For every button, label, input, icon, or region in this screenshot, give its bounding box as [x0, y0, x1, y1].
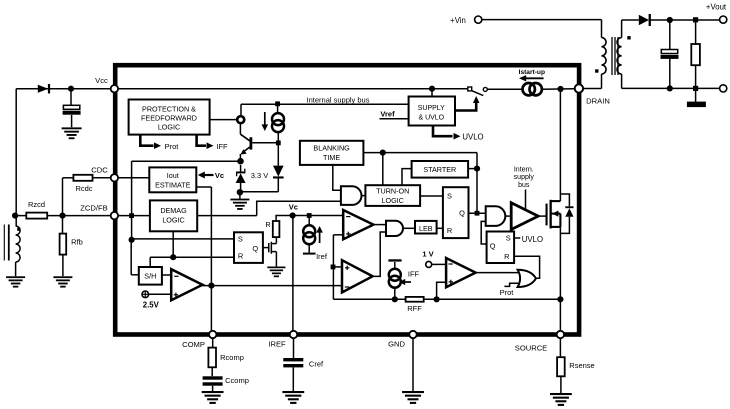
svg-text:Vc: Vc: [289, 203, 298, 212]
power MOSFET drain stub: [551, 200, 560, 202]
wire TURN-ON output to latch1 S: [420, 195, 443, 197]
wire Iout ESTIMATE output to COMP vertical: [196, 186, 211, 188]
svg-text:R: R: [265, 220, 270, 229]
svg-text:Q: Q: [459, 208, 465, 217]
switch contact square: [468, 87, 472, 91]
svg-text:Vc: Vc: [215, 171, 224, 180]
transformer core lines: [611, 37, 613, 75]
ground Rfb: [53, 276, 72, 278]
svg-text:Istart-up: Istart-up: [519, 69, 545, 76]
arrow down current direction: [264, 112, 266, 126]
junction S-row dot: [129, 237, 135, 243]
wire clamp diode bottom link: [240, 191, 278, 193]
wire ilim output bend up to AND gate: [373, 232, 386, 276]
power MOSFET gate bar: [546, 204, 548, 226]
wire ZCD vertical upper segment: [131, 161, 133, 240]
wire Rcdc left bend down to junction: [63, 177, 74, 179]
wire supply tap down to SUPPLY block: [431, 89, 433, 97]
wire error amp output row to current comparator minus: [203, 285, 343, 287]
wire left vertical from diode anode down to aux winding: [15, 89, 17, 226]
aux winding phase dot: [17, 228, 20, 231]
wire intern bus to driver top: [525, 190, 527, 210]
ground aux winding: [6, 276, 25, 278]
transformer secondary coil: [617, 38, 622, 74]
wire driver to MOSFET gate: [538, 215, 546, 217]
wire Iref source top stub: [308, 216, 310, 226]
wire Cref to ground: [292, 367, 294, 391]
svg-text:Internal supply bus: Internal supply bus: [307, 95, 370, 104]
wire COMP to Rcomp: [212, 339, 214, 348]
svg-text:Vcc: Vcc: [95, 76, 108, 85]
ground Rsense: [550, 393, 572, 395]
wire Q1 drain up to resistor R: [275, 237, 277, 244]
wire latch1 Q output row: [469, 212, 486, 214]
junction Q row square: [475, 211, 480, 216]
and gate turn-on: [341, 186, 362, 205]
svg-text:LOGIC: LOGIC: [158, 122, 180, 131]
svg-text:LOGIC: LOGIC: [382, 196, 404, 205]
svg-text:Rfb: Rfb: [71, 238, 83, 247]
svg-text:FEEDFORWARD: FEEDFORWARD: [141, 113, 197, 122]
wire Q1 source to ground: [275, 252, 277, 267]
wire OR output loop to UVLO latch R: [514, 256, 540, 278]
junction blanking row dot: [380, 150, 386, 156]
junction output cap top: [667, 17, 673, 23]
wire Iref source bottom stub and bar: [308, 244, 310, 252]
wire Vcc cap stub: [70, 89, 72, 106]
svg-text:Ccomp: Ccomp: [225, 376, 249, 385]
arrow IFF into source: [402, 281, 412, 283]
zener diode 3.3V body: [236, 173, 246, 183]
svg-text:S: S: [447, 192, 452, 201]
wire blanking tap down to TURN-ON: [382, 153, 384, 186]
svg-text:SOURCE: SOURCE: [515, 344, 548, 353]
wire starter/blanking vertical to Q row: [476, 153, 478, 214]
secondary phase dot: [627, 36, 630, 39]
wire OVP plus bend to sense line: [437, 282, 447, 299]
wire UVLO latch S input stub: [514, 237, 520, 239]
wire primary bottom to DRAIN: [601, 74, 603, 89]
diode clamp (series): [273, 166, 284, 177]
block Iout ESTIMATE: [149, 167, 196, 192]
wire +Vin to primary: [482, 19, 601, 21]
IC boundary box: [115, 65, 579, 334]
current source bus (to Vc clamp): [272, 113, 284, 125]
comparator current limit: [342, 260, 373, 292]
svg-text:bus: bus: [518, 182, 530, 189]
ground GND pin: [402, 391, 424, 393]
arrow Istart-up direction: [524, 77, 544, 79]
arrow IFF output: [197, 135, 206, 146]
or gate protection: [518, 270, 536, 287]
junction zener bottom node: [237, 189, 243, 195]
svg-text:Rcdc: Rcdc: [75, 184, 92, 193]
svg-text:Rcomp: Rcomp: [220, 353, 244, 362]
capacitor Cout (electrolytic): [661, 50, 677, 54]
svg-text:DEMAG: DEMAG: [160, 206, 187, 215]
wire diode to +Vout: [649, 19, 719, 21]
wire ilim plus stub: [333, 266, 342, 268]
wire AND1 to TURN-ON LOGIC: [362, 195, 366, 197]
wire node circle up to internal supply bus corner: [240, 104, 242, 115]
wire BLANKING right output row: [363, 152, 477, 154]
wire Vcc rail from diode to Vcc pin: [16, 88, 114, 90]
wire bus tap down to current source: [277, 104, 279, 112]
svg-text:S/H: S/H: [144, 272, 156, 281]
wire UVLO latch Q loop to AND: [481, 221, 486, 244]
power MOSFET body diode branch: [560, 194, 569, 206]
junction Iref source square: [307, 213, 312, 218]
junction sense to ilim plus square: [331, 265, 336, 270]
svg-text:Rsense: Rsense: [569, 361, 594, 370]
block S/H: [139, 267, 162, 285]
wire ZCD/FB row: [15, 215, 114, 217]
junction load top: [693, 17, 698, 22]
diode D1 Vcc rectifier: [38, 85, 49, 93]
svg-text:R: R: [504, 252, 509, 261]
and gate PWM/ilim: [386, 221, 403, 236]
svg-text:2.5V: 2.5V: [143, 300, 160, 309]
diode D2 output rectifier: [639, 15, 649, 25]
current source Iref: [303, 225, 315, 237]
svg-text:S: S: [238, 235, 243, 244]
current source IFF: [389, 269, 401, 281]
wire Prot stub into OR gate: [504, 283, 518, 286]
svg-text:Rzcd: Rzcd: [28, 200, 45, 209]
transistor Q1 (discharge MOSFET): [268, 243, 270, 252]
wire STARTER output: [468, 168, 477, 170]
ground Ccomp: [202, 391, 224, 393]
wire ZCD vertical lower segment to S/H bend: [130, 240, 132, 275]
svg-text:ZCD/FB: ZCD/FB: [80, 203, 107, 212]
junction supply block tap: [429, 86, 435, 92]
wire Rfb bottom to ground: [62, 255, 64, 277]
svg-text:Iout: Iout: [167, 171, 179, 180]
ground Cvcc: [62, 127, 82, 129]
svg-text:3.3 V: 3.3 V: [251, 171, 269, 180]
latch SR (demag latch): [234, 232, 263, 263]
svg-text:+Vout: +Vout: [706, 3, 727, 12]
svg-text:CDC: CDC: [91, 166, 108, 175]
wire aux winding to ground: [15, 262, 17, 276]
wire Cvcc to ground: [71, 115, 73, 127]
power MOSFET body stub with arrow: [551, 213, 560, 215]
wire Vc row to PWM comparator minus: [293, 215, 344, 217]
svg-text:SUPPLY: SUPPLY: [418, 105, 445, 112]
wire DEMAG right output (ZCD net continue): [197, 215, 257, 217]
wire AND to LEB: [403, 227, 415, 229]
comparator OVP 1V: [446, 258, 476, 287]
wire 2.5V to error amp plus: [149, 293, 172, 295]
junction OVP sense dot: [434, 296, 440, 302]
svg-text:GND: GND: [388, 340, 405, 349]
svg-text:& UVLO: & UVLO: [418, 115, 444, 122]
latch SR UVLO: [487, 232, 514, 264]
block BLANKING TIME: [300, 141, 364, 165]
wire zener node to ground: [239, 193, 241, 199]
source 1V circle: [426, 261, 432, 267]
wire ZCD net bend up and to AND gate: [257, 201, 341, 215]
wire Rcomp to Ccomp: [211, 367, 213, 376]
svg-text:Vref: Vref: [380, 109, 395, 118]
node circle protection output: [237, 116, 244, 123]
resistor Rcdc: [73, 175, 92, 181]
resistor Rfb: [60, 234, 67, 255]
wire ZCD into DEMAG: [114, 215, 149, 217]
svg-text:ESTIMATE: ESTIMATE: [155, 181, 191, 190]
wire R-row to latch2 R input: [150, 256, 234, 258]
block SUPPLY & UVLO: [409, 97, 455, 126]
wire load top stub: [695, 20, 697, 44]
wire sense vertical: [332, 235, 334, 299]
block STARTER: [412, 161, 469, 178]
wire BJT base: [252, 142, 278, 144]
arrow switch control from SUPPLY block: [455, 102, 476, 111]
resistor Rcomp: [208, 348, 216, 368]
arrow Iref up: [319, 231, 321, 244]
wire current source to diode anode: [277, 132, 279, 166]
arrow Vc into Iout ESTIMATE: [204, 174, 214, 176]
svg-text:DRAIN: DRAIN: [586, 97, 610, 106]
transformer aux winding core lines: [3, 225, 5, 261]
wire 1V to comparator minus: [432, 263, 446, 265]
wire BJT emitter to zener node: [239, 154, 241, 161]
wire Rsense to ground: [560, 376, 562, 393]
and gate output: [486, 206, 506, 226]
wire AND to driver: [505, 215, 511, 217]
wire BLANKING bottom to AND1: [333, 165, 341, 190]
junction internal supply bus tap square: [275, 101, 280, 106]
wire S-row to latch2 S input: [132, 238, 234, 240]
arrow UVLO output of SUPPLY block: [433, 126, 453, 137]
svg-text:RFF: RFF: [407, 304, 422, 313]
driver buffer triangle: [511, 203, 538, 230]
svg-text:+Vin: +Vin: [450, 16, 466, 25]
svg-text:UVLO: UVLO: [462, 132, 483, 141]
wire GND to ground: [412, 339, 414, 391]
junction DEMAG output dot: [170, 254, 176, 260]
power MOSFET channel bar: [550, 200, 552, 229]
block TURN-ON LOGIC: [365, 185, 420, 206]
resistor Rsense: [557, 357, 565, 376]
resistor R (Vc pull): [273, 221, 280, 237]
block DEMAG LOGIC: [150, 200, 197, 231]
svg-text:STARTER: STARTER: [423, 165, 456, 174]
svg-text:LEB: LEB: [419, 224, 433, 233]
capacitor Ccomp: [203, 376, 223, 379]
junction sense at source: [557, 296, 563, 302]
wire secondary bottom: [621, 74, 623, 88]
wire Vref input: [380, 118, 409, 120]
svg-text:1 V: 1 V: [422, 249, 433, 258]
junction IFF dot: [392, 296, 398, 302]
wire switch to Istart-up source: [487, 88, 523, 90]
svg-text:TURN-ON: TURN-ON: [376, 187, 409, 196]
wire output ground stub: [695, 88, 697, 102]
svg-text:Q: Q: [252, 244, 258, 253]
svg-text:IREF: IREF: [268, 340, 286, 349]
wire output cap stub top: [669, 20, 671, 49]
wire DEMAG bottom output: [172, 231, 174, 257]
svg-text:R: R: [447, 226, 452, 235]
wire internal supply bus into SUPPLY block: [241, 103, 409, 105]
svg-text:IFF: IFF: [408, 270, 420, 279]
wire OVP output to OR gate: [476, 272, 518, 274]
junction Vcc cap node: [68, 86, 74, 92]
wire latch2 Q to Q1 gate: [263, 247, 268, 249]
svg-text:S: S: [506, 234, 511, 243]
capacitor Cref: [283, 358, 303, 361]
junction aux winding node: [12, 213, 18, 219]
capacitor Cvcc (electrolytic): [63, 105, 79, 109]
junction drain node: [557, 86, 563, 92]
svg-text:PROTECTION &: PROTECTION &: [142, 104, 196, 113]
junction Vc dot: [290, 212, 296, 218]
ground zener clamp: [230, 199, 249, 201]
current source Istart-up: [523, 83, 535, 95]
source 2.5V reference: [142, 291, 149, 298]
wire load bottom stub: [695, 65, 697, 88]
transformer primary coil: [602, 38, 607, 74]
wire sense line horizontal: [333, 298, 560, 300]
switch contact circle: [483, 87, 487, 91]
junction ZCD square: [129, 213, 134, 218]
wire PWM output to AND gate: [373, 224, 386, 226]
wire CDC line into Iout ESTIMATE: [114, 177, 149, 179]
junction error amp output dot: [208, 283, 214, 289]
comparator error amp S/H: [171, 269, 202, 300]
svg-text:supply: supply: [514, 174, 535, 181]
comparator PWM: [343, 210, 373, 239]
svg-text:Intern.: Intern.: [514, 167, 534, 174]
primary phase dot: [595, 69, 598, 72]
arrow Prot output: [140, 135, 153, 146]
wire output cap stub bottom: [669, 58, 671, 88]
svg-text:Iref: Iref: [316, 252, 328, 261]
svg-text:Cref: Cref: [309, 360, 324, 369]
wire SOURCE to Rsense: [559, 339, 561, 357]
wire R-row bend into S/H top: [149, 257, 151, 267]
power MOSFET source stub: [551, 226, 560, 228]
wire TURN-ON top to STARTER input: [402, 169, 412, 186]
junction BJT base node square: [276, 141, 281, 146]
svg-text:Prot: Prot: [165, 142, 180, 151]
block PROTECTION & FEEDFORWARD LOGIC: [129, 100, 210, 135]
wire Istart-up to DRAIN: [542, 88, 574, 91]
zener diode 3.3V bar: [236, 172, 245, 174]
pin circles overlay: [111, 85, 118, 92]
wire Rfb top stub: [62, 216, 64, 234]
ground Cref: [282, 391, 304, 393]
resistor Rload: [691, 44, 700, 65]
svg-text:TIME: TIME: [323, 153, 340, 162]
svg-text:UVLO: UVLO: [522, 235, 543, 244]
switch lever: [471, 91, 483, 96]
svg-text:Prot: Prot: [500, 288, 515, 297]
junction starter dot: [474, 166, 480, 172]
wire COMP vertical: [210, 187, 212, 335]
wire internal Vcc rail to switch: [114, 88, 467, 90]
latch SR PWM: [443, 187, 469, 238]
svg-text:COMP: COMP: [182, 340, 205, 349]
svg-text:BLANKING: BLANKING: [313, 143, 350, 152]
junction Rfb node: [59, 213, 65, 219]
svg-text:R: R: [238, 252, 243, 261]
wire IREF vertical: [292, 216, 294, 335]
wire feedforward line to ZCD vertical: [132, 160, 241, 162]
wire IFF source top stem and bar: [394, 262, 396, 269]
ground output (bar): [687, 102, 706, 108]
wire IREF to Cref: [293, 339, 295, 358]
resistor Rzcd: [26, 213, 47, 219]
svg-text:LOGIC: LOGIC: [162, 216, 184, 225]
block LEB: [415, 221, 437, 234]
junction bottom rail at load: [693, 86, 698, 91]
wire S/H output to error amp: [162, 274, 171, 276]
svg-text:IFF: IFF: [216, 142, 228, 151]
wire CDC pin to Rcdc: [93, 177, 115, 179]
transistor BJT clamp: [250, 137, 253, 149]
wire IFF source bottom stub: [394, 288, 396, 300]
wire PWM plus bend to sense vertical: [333, 234, 343, 236]
wire Ccomp to ground: [212, 386, 214, 391]
wire PROTECTION output to node circle: [210, 119, 237, 121]
wire R top bend to Vc row: [276, 216, 293, 222]
wire LEB to latch1 R: [437, 227, 443, 229]
resistor RFF: [406, 297, 424, 302]
ground Q1: [267, 267, 285, 269]
wire output bottom rail: [622, 87, 720, 89]
transformer aux winding coil: [16, 226, 21, 262]
junction bottom rail at cap: [667, 85, 673, 91]
wire secondary top to diode: [621, 20, 623, 38]
junction zener top node: [237, 158, 244, 165]
svg-text:Q: Q: [490, 242, 496, 251]
